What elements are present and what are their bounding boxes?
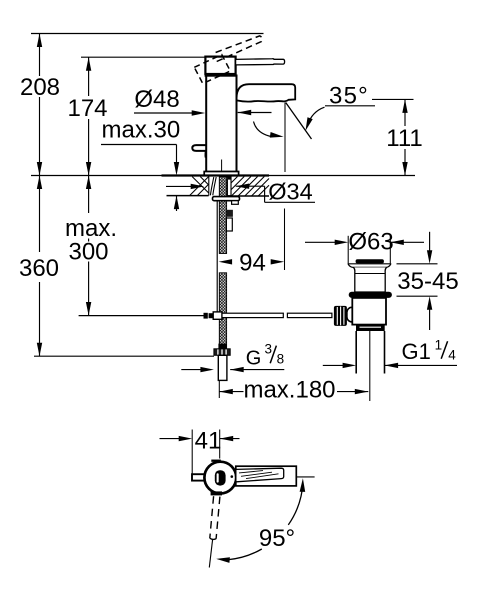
dimension ref line deck top extended [31, 175, 415, 177]
dimension D48 left line [134, 112, 193, 114]
svg-text:300: 300 [68, 239, 108, 266]
dimension 41 left arrow [179, 436, 193, 441]
pop-up rod segment B [287, 313, 332, 317]
top view lever grip [237, 468, 284, 482]
dimension 94 ext line [284, 209, 286, 271]
dimension max300 line mid [88, 239, 90, 242]
dimension max180 left line [219, 391, 243, 393]
braided hose lower [219, 273, 226, 349]
dimension G38 right line [230, 369, 284, 371]
faucet waste pull-rod knob (rear) [192, 145, 206, 157]
dimension 360 line upper [39, 176, 41, 253]
pull rod in hole [227, 177, 231, 196]
dimension 35-45 ref line upper [397, 263, 438, 265]
waste body [352, 298, 386, 325]
waste rod knurled knob [334, 306, 347, 326]
dimension max180 left arrow [219, 389, 233, 394]
pull rod coupler upper [227, 210, 233, 217]
dimension 208 line upper [39, 34, 41, 77]
hose nut [214, 349, 230, 356]
dimension max30 leader vertical [176, 145, 178, 163]
pop-up rod thin line [79, 315, 204, 317]
top view lever streaks [239, 471, 279, 479]
dimension G38 label [246, 342, 284, 370]
dimension ref line 174 (sleeve top) [81, 56, 205, 58]
dimension 94 left arrow [219, 259, 233, 264]
dimension 41 right arrow [220, 436, 234, 441]
dimension 174 arrow bottom [86, 162, 91, 176]
faucet base flange [204, 172, 238, 176]
dimension 41 right line [220, 438, 240, 440]
deck bottom edge left [167, 195, 209, 197]
dimension max300 line upper [88, 176, 90, 214]
dimension max300 arrow top [86, 176, 91, 190]
rotated lever ext line [209, 540, 212, 568]
svg-text:4: 4 [448, 347, 456, 362]
deck hole left edge [208, 177, 210, 196]
faucet handle sleeve [205, 57, 235, 74]
svg-text:Ø48: Ø48 [134, 86, 179, 113]
deck hatching left [190, 177, 209, 196]
dimension D34 right line [236, 185, 265, 187]
dimension max300 line lower [88, 262, 90, 316]
dimension G38 right arrow [230, 367, 244, 372]
faucet sleeve bottom joint band [205, 73, 237, 76]
waste rod boss [347, 307, 359, 322]
waste flange [349, 292, 392, 298]
pop-up rod joint block 2 [209, 313, 213, 318]
dimension D48 left arrow [192, 110, 206, 115]
dimension 35-45 line lower [429, 309, 431, 330]
water flow arc [254, 122, 272, 137]
svg-text:G1: G1 [402, 339, 431, 364]
dimension 35deg leader curve [307, 107, 324, 125]
pull rod top cap [228, 177, 231, 180]
dimension D63 left arrow [335, 240, 349, 245]
dimension 35deg leader arrow [306, 117, 313, 131]
faucet lever raised (dashed) [216, 36, 263, 62]
dimension 360 arrow bottom [37, 343, 42, 357]
svg-text:360: 360 [19, 255, 59, 282]
dimension 111 line lower [404, 149, 406, 176]
pop-up rod joint square [213, 312, 222, 319]
svg-text:95°: 95° [259, 525, 295, 552]
dimension 111 line upper [404, 99, 406, 126]
svg-text:Ø63: Ø63 [348, 229, 393, 256]
dimension D63 right line [390, 241, 424, 243]
waste neck [353, 267, 386, 292]
water flow arrow [270, 132, 284, 138]
waste ext line left [347, 236, 349, 264]
waste tailpipe left [355, 331, 357, 374]
pull rod coupler lower [226, 218, 232, 231]
svg-text:111: 111 [386, 125, 422, 152]
lever angle ref line [296, 476, 314, 478]
dimension 174 line upper [88, 57, 90, 96]
svg-text:8: 8 [277, 352, 285, 367]
pop-up rod joint block 1 [204, 313, 208, 319]
supply hose curve in hole [210, 177, 216, 195]
dimension max180 ext line left [218, 368, 220, 398]
dimension 208 line lower [39, 97, 41, 176]
deck hole right edge [230, 177, 232, 197]
dimension 94 right arrow [271, 259, 285, 264]
dimension D34 right arrow [236, 184, 250, 189]
dimension D63 right arrow [390, 240, 404, 245]
top view rear tab [192, 474, 206, 480]
dimension ref line top (lever max height) [31, 33, 264, 35]
dimension max180 right arrow [355, 389, 369, 394]
dimension D63 left line [305, 241, 337, 243]
top view body circle [204, 462, 236, 494]
waste body bottom bar [356, 325, 385, 331]
waste ext line right [389, 236, 391, 264]
dimension 41 ext line left [191, 430, 193, 476]
top view lever rotated (dashed) [210, 496, 220, 539]
dimension 35-45 arrow upper [427, 250, 432, 264]
dimension max30 underline [101, 144, 177, 146]
svg-text:94: 94 [239, 250, 266, 277]
top view bottom tab [211, 491, 222, 495]
top view screw dot [231, 475, 234, 478]
dimension 95deg arc upper [288, 484, 303, 525]
faucet lever rod [236, 59, 285, 65]
waste plug brim [348, 264, 391, 268]
dimension max30 arrow below deck [174, 196, 179, 210]
dimension D48 right line [238, 112, 272, 114]
dimension 35-45 line upper [429, 232, 431, 251]
pop-up rod segment A [222, 313, 283, 317]
dimension 208 arrow bottom [37, 162, 42, 176]
svg-text:35-45: 35-45 [397, 268, 458, 295]
waste center line [369, 331, 371, 401]
dimension 360 arrow top [37, 176, 42, 190]
dimension ref line hose end [34, 355, 214, 357]
dimension 95deg arc lower [229, 549, 262, 560]
faucet spout [237, 84, 296, 101]
faucet sleeve raised (dashed) [194, 55, 230, 84]
top view lever outer [236, 466, 296, 486]
svg-text:max.30: max.30 [102, 117, 181, 144]
faucet body [206, 76, 236, 172]
dimension G114 right arrow [385, 363, 399, 368]
dimension D34 left arrow [191, 184, 205, 189]
dimension D48 right arrow [238, 110, 252, 115]
dimension 111 arrow top [402, 99, 407, 113]
dimension 174 line lower [88, 119, 90, 176]
dimension max180 right line [337, 391, 368, 393]
svg-text:3: 3 [265, 342, 273, 357]
top view lever hole [215, 470, 226, 485]
top view circle top chord [211, 460, 221, 462]
dimension D34 left line [166, 185, 193, 187]
svg-text:41: 41 [195, 428, 222, 455]
dimension 360 line lower [39, 282, 41, 356]
dimension 174 arrow top [86, 57, 91, 70]
dimension G114 left arrow [343, 363, 357, 368]
dimension 35-45 ref line lower [397, 295, 438, 297]
hose end fitting [218, 344, 226, 349]
spray direction line 35deg [286, 103, 312, 140]
dimension D34 leader vertical [264, 186, 266, 202]
dimension max30 line below deck [176, 196, 178, 211]
waste neck seam [355, 273, 385, 275]
deck hatching right [231, 177, 269, 197]
top view lever hole highlight [217, 473, 219, 482]
dimension max30 arrow above deck [174, 162, 179, 176]
dimension 35deg underline [325, 105, 375, 107]
dimension 95deg arc arrow upper [300, 478, 306, 492]
dimension 41 ext line right [219, 430, 221, 459]
dimension G38 left line [181, 369, 202, 371]
dimension G114 left line [323, 364, 345, 366]
dimension G114 right line [385, 364, 457, 366]
hose connector tube [218, 355, 227, 380]
washer side piece [232, 201, 239, 205]
svg-text:G: G [246, 347, 262, 369]
dimension 95deg arc arrow lower [216, 557, 230, 563]
waste plug cap [356, 259, 384, 263]
mounting washer [213, 197, 240, 201]
dimension 111 arrow bottom [402, 162, 407, 176]
waste tailpipe right [384, 331, 386, 374]
svg-text:Ø34: Ø34 [268, 179, 312, 205]
braided hose upper [219, 177, 226, 254]
dimension 41 left line [160, 438, 181, 440]
svg-text:208: 208 [20, 74, 60, 101]
dimension G38 left arrow [200, 367, 214, 372]
dimension 208 arrow top [37, 34, 42, 48]
deck top edge (thick) [162, 174, 270, 176]
faucet center line [221, 160, 223, 172]
aerator vertical ref line [284, 103, 286, 173]
dimension G114 label [402, 337, 457, 364]
svg-text:1: 1 [435, 337, 443, 352]
dimension ref line 111 top [372, 98, 414, 100]
deck bottom edge right [231, 195, 269, 197]
svg-text:max.180: max.180 [243, 377, 335, 404]
dimension D34 underline [265, 201, 315, 203]
dimension max300 arrow bottom [86, 302, 91, 316]
pull rod vertical line [216, 201, 218, 313]
dimension 35-45 arrow lower [427, 296, 432, 310]
